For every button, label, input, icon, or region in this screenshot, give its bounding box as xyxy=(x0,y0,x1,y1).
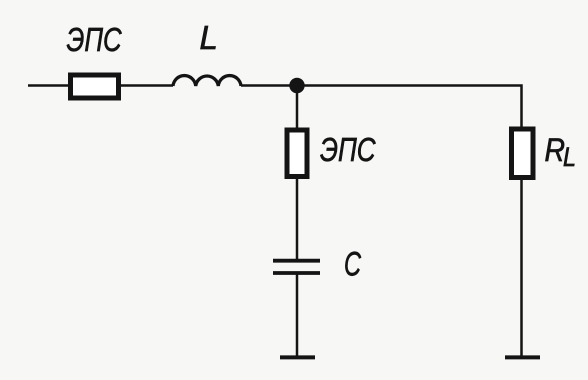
wire: inductor to node A xyxy=(241,84,297,87)
svg-text:R: R xyxy=(545,132,566,168)
ground (left terminal bar) xyxy=(280,355,315,359)
svg-text:C: C xyxy=(344,246,361,284)
svg-text:L: L xyxy=(563,142,576,172)
svg-text:ЭПС: ЭПС xyxy=(320,131,376,168)
wire: capacitor C to left ground xyxy=(296,273,299,356)
capacitor C top plate xyxy=(273,259,320,263)
resistor ЭПС (capacitor ESR, vertical) xyxy=(287,130,307,177)
wire: ESR resistor to capacitor C xyxy=(296,177,299,259)
resistor ЭПС (series, horizontal) xyxy=(71,75,119,98)
resistor RL (load, vertical) xyxy=(512,129,534,178)
capacitor C bottom plate xyxy=(273,271,320,275)
svg-text:L: L xyxy=(200,19,218,56)
wire: node A to top of RL branch (with corner) xyxy=(297,86,522,130)
wire: node A down to capacitor ESR xyxy=(296,86,299,131)
node A (junction dot) xyxy=(289,78,304,93)
wire: input lead to resistor ЭПС xyxy=(28,84,68,87)
ground (right terminal bar) xyxy=(505,355,540,359)
wire: RL bottom to right ground xyxy=(520,180,523,356)
wire: resistor to inductor L xyxy=(121,84,173,87)
inductor L xyxy=(173,76,241,86)
svg-text:ЭПС: ЭПС xyxy=(67,21,123,58)
